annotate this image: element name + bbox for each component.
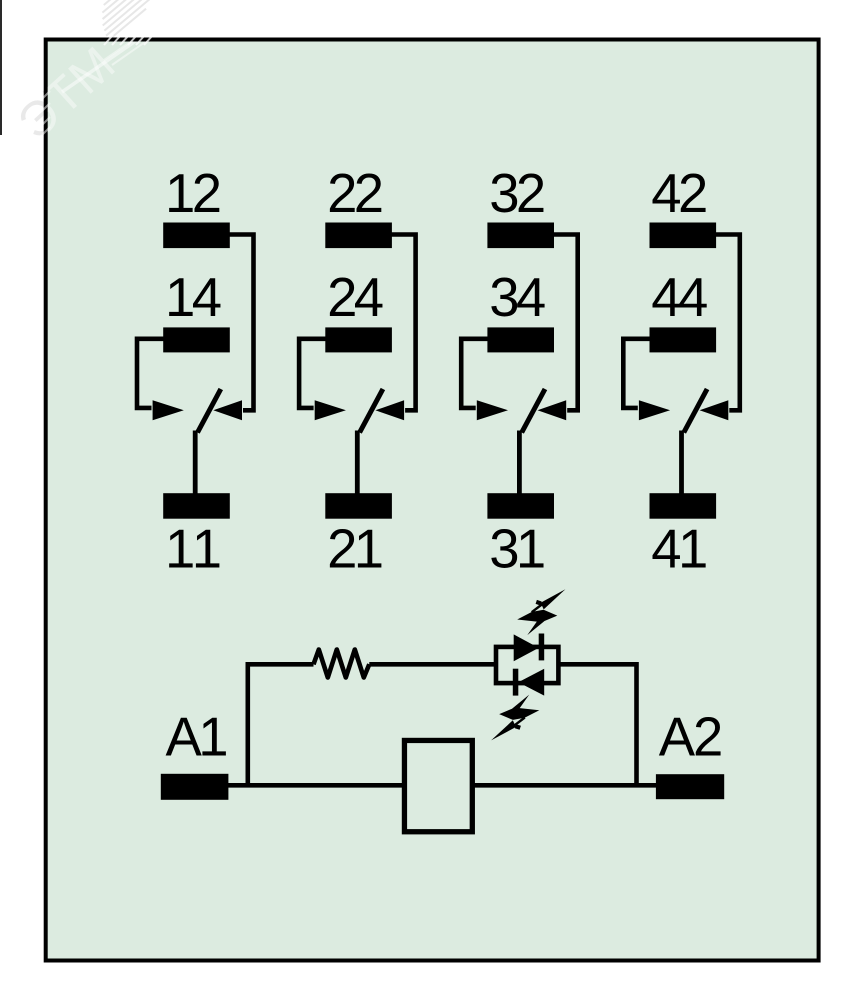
- svg-text:11: 11: [165, 519, 222, 580]
- svg-text:A2: A2: [659, 707, 724, 768]
- svg-text:44: 44: [651, 267, 708, 328]
- wire LED to A2 side: [558, 664, 637, 785]
- wire from 12 right side down to break contact arrow: [228, 235, 254, 411]
- wire A1 to coil: [227, 783, 404, 788]
- arrow (break contact, pointing left): [538, 400, 567, 420]
- stray vertical line top-left page edge: [0, 0, 2, 135]
- terminal bar 24: [325, 327, 392, 352]
- wire blade to common terminal: [193, 431, 198, 496]
- wire resistor to LED: [369, 662, 494, 667]
- watermark underline stripe over green panel: [62, 27, 158, 92]
- svg-text:22: 22: [327, 163, 384, 224]
- watermark letters on white area: [8, 36, 126, 150]
- watermark letters over green panel: [8, 36, 126, 150]
- wire from 24 left side down to make contact arrow: [299, 339, 327, 408]
- wire from 14 left side down to make contact arrow: [137, 339, 165, 408]
- terminal bar A2: [656, 774, 724, 799]
- arrow (make contact, pointing right): [153, 400, 184, 420]
- svg-text:A1: A1: [166, 707, 229, 768]
- svg-text:12: 12: [165, 163, 222, 224]
- terminal bar 11: [163, 493, 230, 519]
- svg-text:24: 24: [327, 267, 384, 328]
- wire blade to common terminal: [679, 431, 684, 496]
- arrow (make contact, pointing right): [477, 400, 508, 420]
- watermark letter strokes crossing the left border: [41, 91, 50, 136]
- svg-text:42: 42: [651, 163, 708, 224]
- switch blade: [360, 389, 383, 433]
- arrow (break contact, pointing left): [375, 400, 404, 420]
- watermark hatch slashes cutting across the border: [104, 35, 153, 45]
- wire blade to common terminal: [517, 431, 522, 496]
- node branch wire up from A1 side: [248, 664, 314, 785]
- terminal bar 42: [650, 223, 717, 249]
- terminal bar 44: [650, 327, 717, 352]
- terminal bar 21: [325, 493, 392, 519]
- relay coil K1: [404, 740, 472, 831]
- svg-text:14: 14: [165, 267, 222, 328]
- arrow (break contact, pointing left): [700, 400, 729, 420]
- wire blade to common terminal: [355, 431, 360, 496]
- diode D2 cathode bar: [513, 669, 519, 696]
- switch blade: [198, 389, 221, 433]
- svg-text:41: 41: [651, 519, 708, 580]
- arrow (make contact, pointing right): [315, 400, 346, 420]
- terminal bar 22: [325, 223, 392, 249]
- wire coil to A2: [473, 783, 657, 788]
- wire from 44 left side down to make contact arrow: [623, 339, 651, 408]
- svg-text:34: 34: [489, 267, 546, 328]
- svg-text:32: 32: [489, 163, 546, 224]
- terminal bar 34: [487, 327, 554, 352]
- resistor R1 (zigzag): [314, 650, 370, 678]
- terminal bar 12: [163, 223, 230, 249]
- light emission bolt lower: [491, 695, 539, 741]
- diode D1 (upper, pointing right): [514, 634, 539, 661]
- wire from 42 right side down to break contact arrow: [714, 235, 740, 411]
- light emission bolt upper: [517, 589, 565, 635]
- terminal bar 31: [487, 493, 554, 519]
- svg-text:21: 21: [327, 519, 384, 580]
- terminal bar A1: [161, 774, 229, 800]
- wire from 34 left side down to make contact arrow: [461, 339, 489, 408]
- terminal bar 32: [487, 223, 554, 249]
- wire from 22 right side down to break contact arrow: [390, 235, 416, 411]
- arrow (make contact, pointing right): [639, 400, 670, 420]
- diode D1 cathode bar: [539, 634, 545, 661]
- svg-text:31: 31: [489, 519, 546, 580]
- watermark swoosh on white area: [80, 0, 164, 40]
- diode D2 (lower, pointing left): [518, 669, 544, 696]
- LED indicator U1 (antiparallel diode pair in box): [491, 589, 565, 740]
- terminal bar 41: [650, 493, 717, 519]
- switch blade: [684, 389, 707, 433]
- wire from 32 right side down to break contact arrow: [552, 235, 578, 411]
- LED box: [496, 647, 558, 683]
- switch blade: [522, 389, 545, 433]
- terminal bar 14: [163, 327, 230, 352]
- arrow (break contact, pointing left): [213, 400, 242, 420]
